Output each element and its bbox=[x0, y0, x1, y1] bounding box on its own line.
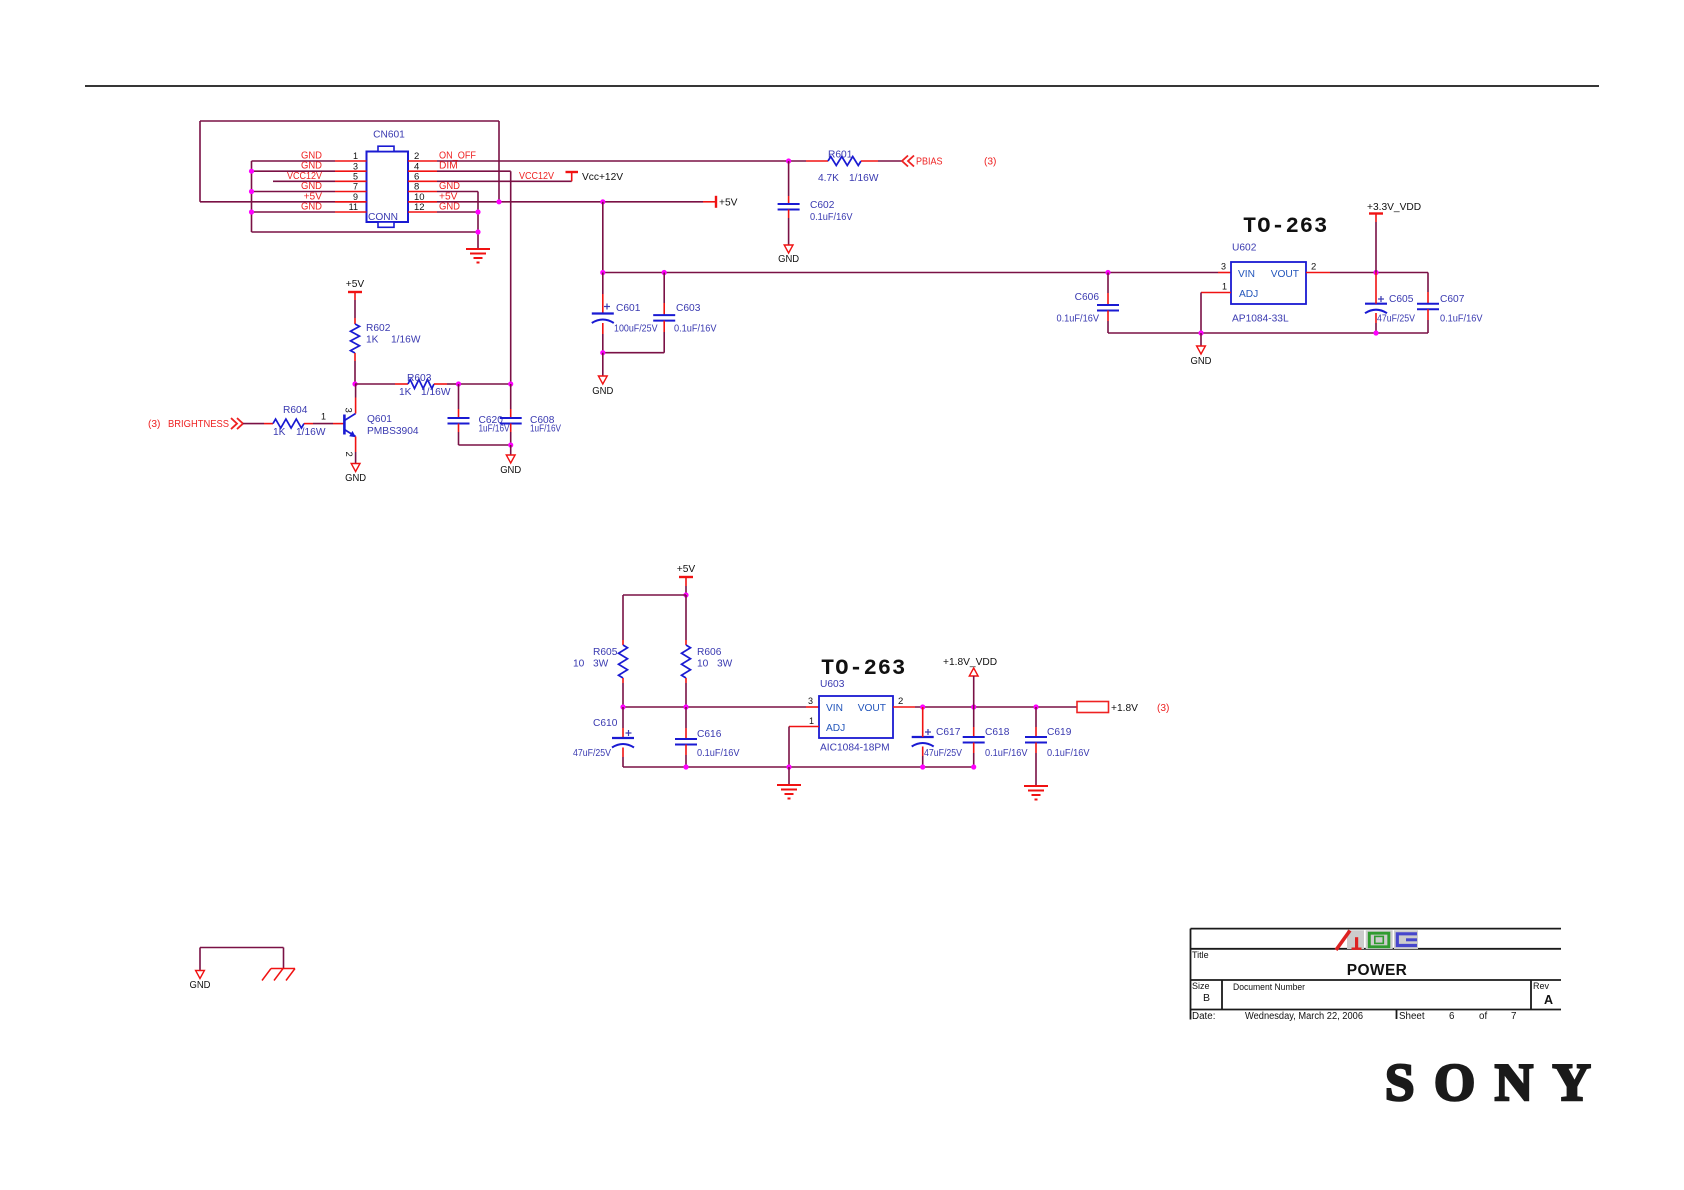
ground earth under connector bbox=[466, 249, 490, 263]
junction ADJ bottom U603 bbox=[786, 764, 791, 769]
svg-text:3W: 3W bbox=[593, 659, 609, 670]
svg-text:0.1uF/16V: 0.1uF/16V bbox=[810, 212, 853, 223]
svg-text:POWER: POWER bbox=[1347, 962, 1408, 979]
svg-text:R601: R601 bbox=[828, 150, 853, 161]
svg-text:+1.8V: +1.8V bbox=[1111, 703, 1138, 714]
svg-text:ADJ: ADJ bbox=[1239, 289, 1258, 300]
svg-text:47uF/25V: 47uF/25V bbox=[573, 748, 611, 759]
wire U603 VOUT rail bbox=[893, 706, 915, 708]
wire R603 to DIM column bbox=[459, 383, 511, 385]
ground chassis bottom left bbox=[262, 969, 295, 981]
svg-text:1: 1 bbox=[809, 716, 814, 726]
svg-text:DIM: DIM bbox=[439, 161, 458, 172]
wire outer loop pin9 to pin10 net bbox=[200, 120, 499, 122]
svg-text:1K: 1K bbox=[366, 335, 379, 346]
svg-text:0.1uF/16V: 0.1uF/16V bbox=[1047, 748, 1090, 759]
svg-text:+5V: +5V bbox=[346, 279, 365, 290]
port +1.8V box bbox=[1077, 702, 1109, 713]
svg-text:U603: U603 bbox=[820, 679, 845, 690]
svg-text:(3): (3) bbox=[1157, 703, 1169, 714]
junction pin3 bbox=[249, 169, 254, 174]
svg-text:R605: R605 bbox=[593, 647, 618, 658]
svg-text:TO-263: TO-263 bbox=[821, 656, 906, 681]
wire pin11 GND bbox=[252, 211, 336, 213]
svg-text:1/16W: 1/16W bbox=[849, 173, 879, 184]
wire GND left bus vertical bbox=[251, 161, 253, 232]
svg-text:GND: GND bbox=[301, 202, 322, 213]
top border line bbox=[85, 85, 1599, 87]
wire +5V row pin9-pin10 to +5V flag bbox=[200, 201, 703, 203]
junction R602/R603/Q601 bbox=[352, 381, 357, 386]
capacitor C601 bbox=[602, 273, 604, 295]
svg-text:3: 3 bbox=[343, 408, 354, 413]
power flag +5V bbox=[715, 196, 717, 208]
svg-text:GND: GND bbox=[1191, 356, 1212, 367]
ground earth under C619 bbox=[1024, 786, 1048, 800]
svg-text:3: 3 bbox=[808, 696, 813, 706]
svg-text:+5V: +5V bbox=[719, 197, 738, 208]
svg-text:C602: C602 bbox=[810, 200, 835, 211]
svg-text:BRIGHTNESS: BRIGHTNESS bbox=[168, 419, 229, 430]
svg-text:Wednesday, March 22, 2006: Wednesday, March 22, 2006 bbox=[1245, 1011, 1364, 1022]
wire U602 ADJ bbox=[1201, 292, 1231, 294]
wire pin3 GND bbox=[252, 170, 336, 172]
svg-text:Size: Size bbox=[1192, 981, 1210, 991]
svg-text:SONY: SONY bbox=[1385, 1054, 1610, 1112]
wire pin2 ON_OFF to R601 bbox=[437, 160, 806, 162]
junction +1.8V_VDD/C618 bbox=[971, 704, 976, 709]
svg-text:PMBS3904: PMBS3904 bbox=[367, 426, 419, 437]
wire pin6 VCC12V bbox=[437, 180, 572, 182]
wire pin1 GND bbox=[252, 160, 336, 162]
capacitor C605 bbox=[1375, 273, 1377, 295]
capacitor C616 bbox=[685, 707, 687, 728]
resistor R604 bbox=[243, 423, 264, 425]
junction R606/C616 bbox=[683, 704, 688, 709]
junction C618 bottom bbox=[971, 764, 976, 769]
capacitor C617 bbox=[922, 707, 924, 727]
svg-text:C618: C618 bbox=[985, 727, 1010, 738]
svg-text:ADJ: ADJ bbox=[826, 723, 845, 734]
svg-text:3: 3 bbox=[353, 161, 358, 171]
capacitor C606 bbox=[1107, 273, 1109, 294]
wire U602 VOUT to +3.3V bbox=[1306, 272, 1330, 274]
junction VOUT +3.3V bbox=[1373, 270, 1378, 275]
junction GND loop corner bbox=[475, 229, 480, 234]
svg-text:10: 10 bbox=[697, 659, 709, 670]
transistor Q601 PMBS3904 bbox=[344, 414, 355, 437]
wire +5V column to VIN rail bbox=[602, 202, 604, 273]
connector CN601 body bbox=[367, 152, 409, 223]
ground earth under U603 ADJ bbox=[777, 785, 801, 799]
svg-text:3: 3 bbox=[1221, 262, 1226, 272]
junction +5V R605/R606 bbox=[683, 592, 688, 597]
wire pin8 GND bbox=[437, 191, 478, 193]
svg-text:TO-263: TO-263 bbox=[1243, 214, 1328, 239]
svg-text:10: 10 bbox=[573, 659, 585, 670]
ground GND under C602 bbox=[784, 245, 793, 253]
wire GND bottom loop bbox=[252, 231, 479, 233]
svg-text:1/16W: 1/16W bbox=[391, 335, 421, 346]
junction R601/C602 bbox=[786, 158, 791, 163]
svg-text:VIN: VIN bbox=[1238, 269, 1255, 280]
svg-text:47uF/25V: 47uF/25V bbox=[924, 748, 962, 759]
capacitor C620 bbox=[458, 384, 460, 409]
svg-text:1uF/16V: 1uF/16V bbox=[530, 424, 561, 435]
junction C616 bottom bbox=[683, 764, 688, 769]
capacitor C607 bbox=[1427, 273, 1429, 293]
wire VIN rail bbox=[603, 272, 1218, 274]
svg-text:VOUT: VOUT bbox=[858, 703, 886, 714]
regulator U602 AP1084-33L bbox=[1231, 262, 1306, 304]
svg-text:Q601: Q601 bbox=[367, 414, 392, 425]
svg-text:1: 1 bbox=[321, 412, 326, 422]
svg-text:11: 11 bbox=[349, 202, 358, 212]
svg-text:C606: C606 bbox=[1075, 292, 1100, 303]
svg-text:R604: R604 bbox=[283, 405, 308, 416]
wire pin12 GND bbox=[437, 211, 478, 213]
svg-text:C603: C603 bbox=[676, 303, 701, 314]
junction pin11 bbox=[249, 209, 254, 214]
svg-text:+3.3V_VDD: +3.3V_VDD bbox=[1367, 202, 1421, 213]
capacitor C610 bbox=[622, 707, 624, 728]
svg-text:GND: GND bbox=[592, 386, 613, 397]
svg-text:Document Number: Document Number bbox=[1233, 982, 1305, 992]
wire GND right vertical bbox=[477, 192, 479, 249]
svg-text:6: 6 bbox=[1449, 1011, 1455, 1022]
svg-text:0.1uF/16V: 0.1uF/16V bbox=[1057, 314, 1100, 325]
svg-text:VCC12V: VCC12V bbox=[519, 171, 554, 182]
wire top loop to R605 bbox=[623, 594, 686, 596]
svg-text:Vcc+12V: Vcc+12V bbox=[582, 172, 623, 183]
junction pin7 bbox=[249, 189, 254, 194]
svg-text:CN601: CN601 bbox=[373, 130, 405, 141]
svg-text:R602: R602 bbox=[366, 323, 391, 334]
junction pin12 bbox=[475, 209, 480, 214]
svg-text:1: 1 bbox=[1222, 282, 1227, 292]
wire Q601 emitter bbox=[355, 437, 357, 453]
svg-text:0.1uF/16V: 0.1uF/16V bbox=[1440, 314, 1483, 325]
junction C608 bottom bbox=[508, 442, 513, 447]
svg-text:2: 2 bbox=[343, 452, 354, 457]
title block frame bbox=[1191, 929, 1562, 1020]
junction C606 bbox=[1105, 270, 1110, 275]
wire U602 bottom rail bbox=[1108, 332, 1428, 334]
svg-text:12: 12 bbox=[414, 202, 425, 213]
resistor R605 bbox=[622, 640, 624, 645]
svg-text:3W: 3W bbox=[717, 659, 733, 670]
svg-text:B: B bbox=[1203, 992, 1210, 1004]
junction C619 bbox=[1033, 704, 1038, 709]
svg-text:C601: C601 bbox=[616, 303, 641, 314]
junction C605 bottom bbox=[1373, 330, 1378, 335]
wire DIM vertical to R603/C608 bbox=[510, 171, 512, 384]
ground GND under C608 bbox=[506, 455, 515, 463]
svg-text:7: 7 bbox=[353, 182, 358, 192]
svg-text:C616: C616 bbox=[697, 729, 722, 740]
svg-text:GND: GND bbox=[190, 980, 211, 991]
junction C601 bottom bbox=[600, 350, 605, 355]
svg-text:0.1uF/16V: 0.1uF/16V bbox=[674, 324, 717, 335]
svg-text:A: A bbox=[1544, 993, 1553, 1007]
wire pin7 GND bbox=[252, 191, 336, 193]
svg-text:0.1uF/16V: 0.1uF/16V bbox=[985, 748, 1028, 759]
capacitor C602 bbox=[788, 161, 790, 196]
resistor R606 bbox=[685, 595, 687, 640]
svg-text:PBIAS: PBIAS bbox=[916, 157, 943, 168]
svg-text:Rev: Rev bbox=[1533, 981, 1550, 991]
svg-text:GND: GND bbox=[345, 473, 366, 484]
resistor R601 bbox=[806, 160, 828, 162]
junction ADJ bottom bbox=[1198, 330, 1203, 335]
svg-text:GND: GND bbox=[778, 254, 799, 265]
junction R605/C610 bbox=[620, 704, 625, 709]
svg-text:VIN: VIN bbox=[826, 703, 843, 714]
junction C601 top bbox=[600, 270, 605, 275]
wire ADJ to GND bbox=[1200, 333, 1202, 346]
port PBIAS bbox=[902, 156, 914, 167]
resistor R603 bbox=[355, 383, 395, 385]
wire VIN rail U603 bbox=[623, 706, 806, 708]
svg-text:0.1uF/16V: 0.1uF/16V bbox=[697, 748, 740, 759]
svg-text:R603: R603 bbox=[407, 373, 432, 384]
junction C617 bottom bbox=[920, 764, 925, 769]
svg-text:(3): (3) bbox=[148, 419, 160, 430]
wire bottom-left ground link bbox=[200, 947, 284, 949]
svg-text:Sheet: Sheet bbox=[1399, 1011, 1425, 1022]
svg-text:C610: C610 bbox=[593, 718, 618, 729]
svg-text:2: 2 bbox=[1311, 262, 1316, 273]
svg-text:7: 7 bbox=[1511, 1011, 1516, 1022]
svg-text:VOUT: VOUT bbox=[1271, 269, 1299, 280]
wire C601/C603 bottom loop bbox=[603, 352, 664, 354]
svg-text:CONN: CONN bbox=[368, 212, 398, 223]
capacitor C618 bbox=[973, 707, 975, 727]
svg-text:Date:: Date: bbox=[1192, 1011, 1215, 1022]
junction C620 top bbox=[456, 381, 461, 386]
ground GND under U602 bbox=[1197, 346, 1206, 354]
svg-text:47uF/25V: 47uF/25V bbox=[1377, 314, 1415, 325]
svg-text:1/16W: 1/16W bbox=[296, 427, 326, 438]
svg-text:1/16W: 1/16W bbox=[421, 387, 451, 398]
wire to GND under C601 bbox=[602, 353, 604, 376]
svg-text:C617: C617 bbox=[936, 727, 961, 738]
svg-text:+1.8V_VDD: +1.8V_VDD bbox=[943, 657, 997, 668]
svg-text:U602: U602 bbox=[1232, 243, 1257, 254]
wire pin5 VCC12V stub bbox=[273, 180, 335, 182]
svg-text:C605: C605 bbox=[1389, 294, 1414, 305]
junction C603 top bbox=[662, 270, 667, 275]
svg-text:(3): (3) bbox=[984, 157, 996, 168]
svg-text:AIC1084-18PM: AIC1084-18PM bbox=[820, 743, 890, 754]
capacitor C603 bbox=[663, 273, 665, 304]
junction pin9/outer box bbox=[496, 199, 501, 204]
wire pin4 DIM bbox=[437, 170, 511, 172]
wire U603 bottom rail bbox=[623, 766, 974, 768]
svg-text:9: 9 bbox=[353, 192, 358, 202]
svg-text:R606: R606 bbox=[697, 647, 722, 658]
junction +5V column bbox=[600, 199, 605, 204]
wire Q601 collector bbox=[355, 384, 357, 398]
regulator U603 AIC1084-18PM bbox=[819, 696, 893, 738]
capacitor C608 bbox=[510, 384, 512, 409]
svg-text:5: 5 bbox=[353, 172, 358, 182]
svg-text:C619: C619 bbox=[1047, 727, 1072, 738]
capacitor C619 bbox=[1035, 707, 1037, 727]
svg-text:100uF/25V: 100uF/25V bbox=[614, 324, 658, 335]
logo AOC bbox=[1336, 930, 1418, 950]
svg-text:2: 2 bbox=[898, 696, 903, 707]
junction C617 bbox=[920, 704, 925, 709]
junction DIM/C608 bbox=[508, 381, 513, 386]
svg-text:+5V: +5V bbox=[677, 564, 696, 575]
resistor R602 bbox=[354, 318, 356, 324]
svg-text:C607: C607 bbox=[1440, 294, 1465, 305]
power symbol Vcc+12V bbox=[566, 171, 579, 173]
svg-text:1uF/16V: 1uF/16V bbox=[479, 424, 510, 435]
svg-text:1: 1 bbox=[353, 151, 358, 161]
connector pin stubs bbox=[335, 160, 367, 162]
svg-text:4.7K: 4.7K bbox=[818, 173, 839, 184]
ground GND bottom left bbox=[196, 971, 205, 979]
wire C620/C608 bottom bbox=[459, 444, 511, 446]
svg-text:GND: GND bbox=[500, 465, 521, 476]
svg-text:AP1084-33L: AP1084-33L bbox=[1232, 314, 1289, 325]
wire ADJ to earth bbox=[788, 767, 790, 785]
ground GND under C601 bbox=[598, 376, 607, 384]
svg-text:GND: GND bbox=[439, 202, 460, 213]
svg-text:1K: 1K bbox=[399, 387, 412, 398]
svg-text:1K: 1K bbox=[273, 427, 286, 438]
wire U603 ADJ bbox=[789, 726, 819, 728]
ground GND under Q601 bbox=[351, 464, 360, 472]
svg-text:Title: Title bbox=[1192, 950, 1209, 960]
svg-text:of: of bbox=[1479, 1011, 1487, 1022]
